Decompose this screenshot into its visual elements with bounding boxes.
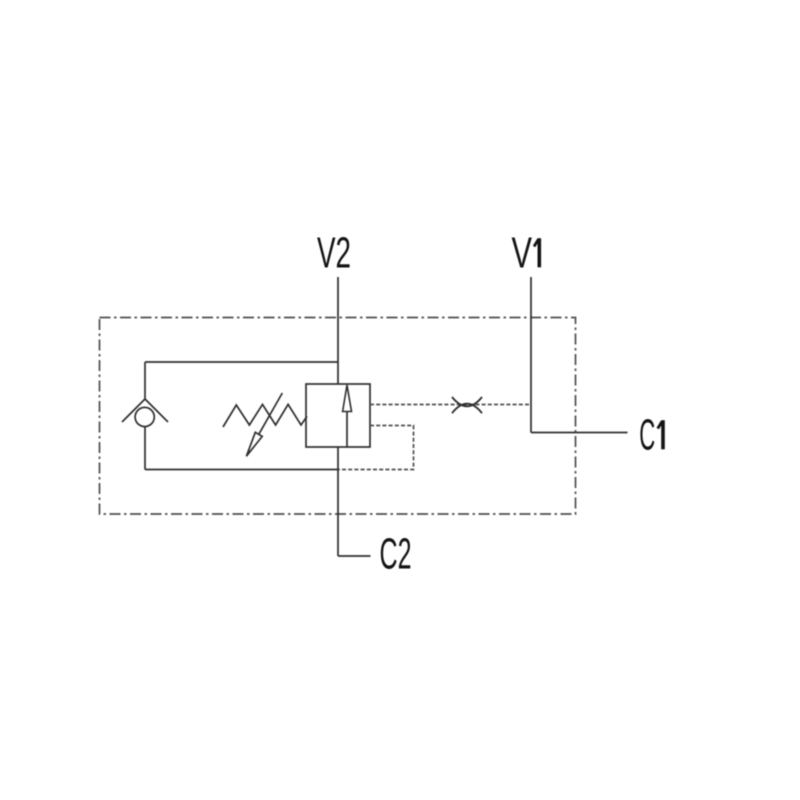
wire check-valve bottom drop — [144, 427, 146, 470]
envelope (dash-dot valve body boundary) — [100, 318, 576, 515]
svg-text:V2: V2 — [317, 229, 351, 278]
orifice / restrictor — [452, 397, 482, 413]
check valve (seat and ball) — [122, 399, 168, 427]
relief valve flow arrow head (open) — [343, 385, 352, 412]
port label V1 — [512, 229, 540, 278]
wire check-valve bottom to main line — [145, 469, 338, 471]
wire V2 port down to branch node — [337, 277, 339, 384]
adjustment arrow open head — [246, 432, 262, 456]
svg-text:V: V — [512, 229, 533, 278]
wire C2 stub — [338, 555, 371, 557]
spring (adjustable) — [223, 404, 307, 427]
wire V1 port down — [530, 277, 532, 433]
port label C1 — [639, 411, 663, 460]
pilot line from valve to V1 (dashed) — [370, 404, 531, 406]
relief valve envelope (square) — [306, 384, 370, 447]
wire branch node to check-valve top — [145, 361, 338, 363]
svg-text:C2: C2 — [380, 530, 412, 579]
adjustment arrow shaft — [259, 393, 283, 434]
relief valve flow arrow stem — [346, 412, 348, 448]
svg-text:C: C — [639, 411, 655, 460]
wire to C1 port — [531, 432, 628, 434]
pilot feedback line (dashed) valve to C2 line — [338, 426, 414, 470]
wire valve bottom to C2 port — [337, 447, 339, 556]
wire check-valve top drop — [144, 362, 146, 399]
